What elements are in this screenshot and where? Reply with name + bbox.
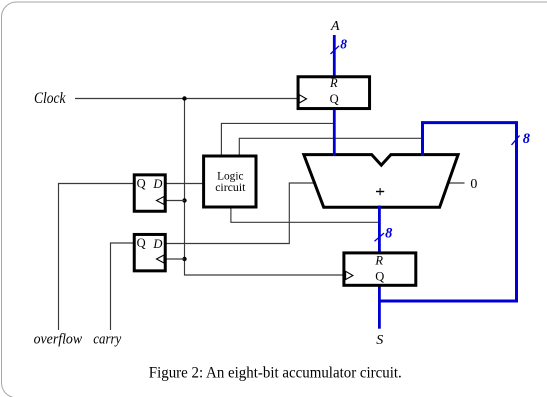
bus A input (8) <box>333 35 336 77</box>
wire FF2 clock input <box>167 258 185 260</box>
wire logic circuit tap from sum bus <box>231 208 380 222</box>
flip-flop FF1 (overflow) <box>134 175 165 211</box>
junction clock/top-register <box>182 96 186 100</box>
adder ALU <box>304 155 458 208</box>
svg-text:S: S <box>376 333 383 348</box>
bus adder sum to register2 <box>378 206 381 254</box>
wire logic circuit input tap from feedback bus <box>239 138 422 155</box>
bus register1 Q to adder <box>333 106 336 156</box>
svg-text:circuit: circuit <box>215 180 246 194</box>
bus-width slash on A bus <box>331 46 340 54</box>
junction clock/FF2 <box>182 257 186 261</box>
svg-text:Figure 2: An eight-bit accumul: Figure 2: An eight-bit accumulator circu… <box>149 365 402 382</box>
wire constant 0 input <box>448 182 465 184</box>
junction clock/FF1 <box>182 198 186 202</box>
wire Clock horizontal <box>75 98 297 100</box>
clock triangle FF1 <box>157 197 165 205</box>
svg-text:0: 0 <box>470 177 477 192</box>
svg-text:Q: Q <box>137 236 146 250</box>
svg-text:Clock: Clock <box>34 90 66 107</box>
wire FF2 D from adder carry-out <box>167 183 315 244</box>
svg-text:Q: Q <box>375 270 384 284</box>
svg-text:carry: carry <box>93 332 121 348</box>
svg-text:8: 8 <box>523 131 531 147</box>
svg-text:D: D <box>152 177 162 191</box>
svg-text:A: A <box>330 19 340 34</box>
wire FF1 D from logic circuit <box>167 183 204 185</box>
clock triangle R2 <box>346 271 353 279</box>
bus register2 Q to S <box>378 286 381 329</box>
svg-text:8: 8 <box>385 226 393 242</box>
svg-text:Q: Q <box>137 176 146 190</box>
register R2 <box>344 253 416 285</box>
svg-text:D: D <box>152 237 162 251</box>
svg-text:overflow: overflow <box>34 332 83 348</box>
wire FF2 Q to carry <box>111 243 134 330</box>
svg-text:R: R <box>329 76 338 90</box>
logic circuit box <box>204 156 256 207</box>
wire logic circuit input tap from register bus <box>221 123 334 155</box>
wire FF1 clock input <box>167 200 185 202</box>
register R1 <box>298 77 370 109</box>
svg-text:8: 8 <box>340 37 347 52</box>
flip-flop FF2 (carry) <box>134 234 165 270</box>
bus-width slash on sum bus <box>375 233 385 241</box>
label + inside adder <box>376 191 384 193</box>
svg-text:Q: Q <box>330 92 339 106</box>
bus feedback S to adder right input <box>379 123 516 301</box>
clock triangle FF2 <box>157 255 165 263</box>
clock triangle R1 <box>299 95 306 103</box>
bus-width slash on feedback bus <box>512 136 520 145</box>
svg-text:R: R <box>374 254 383 268</box>
wire FF1 Q to overflow <box>59 184 134 331</box>
wire clock vertical distribution <box>185 99 346 276</box>
